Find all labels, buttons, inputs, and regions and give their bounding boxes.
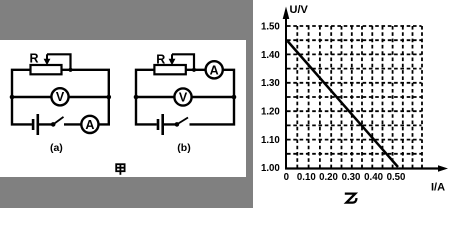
battery gap mask circuit a (32, 123, 38, 127)
svg-text:0.30: 0.30 (342, 172, 361, 183)
U-I line (288, 41, 399, 167)
svg-text:V: V (56, 90, 65, 104)
grid horizontal dashed lines (287, 26, 422, 154)
label 甲 (figure 1 caption), drawn as strokes (116, 164, 124, 175)
switch gap mask circuit b (179, 123, 190, 127)
svg-text:1.50: 1.50 (261, 21, 280, 32)
svg-text:(a): (a) (50, 142, 63, 154)
svg-text:A: A (85, 118, 94, 132)
switch pivot dot circuit a (51, 122, 56, 127)
battery gap mask circuit b (157, 123, 163, 127)
y tick labels (261, 21, 280, 174)
battery cell circuit b: short plate (157, 119, 160, 130)
svg-text:(b): (b) (177, 142, 190, 154)
svg-text:1.10: 1.10 (261, 135, 280, 146)
gray background block (0, 0, 253, 208)
svg-text:1.40: 1.40 (261, 50, 280, 61)
white graph area (253, 0, 452, 208)
voltmeter V1 circuit a (51, 88, 68, 105)
battery cell circuit b: long plate (161, 114, 164, 135)
svg-text:0.10: 0.10 (297, 172, 316, 183)
wire: middle branch circuit b (136, 96, 234, 98)
svg-text:0.20: 0.20 (319, 172, 338, 183)
svg-text:0: 0 (284, 172, 289, 183)
wire: outer loop circuit b (136, 70, 234, 125)
wire: outer loop circuit a (12, 70, 109, 125)
node: left junction circuit a (10, 95, 15, 100)
wire: slider tap circuit b (172, 53, 194, 70)
node: slider tap junction circuit b (192, 68, 196, 72)
resistor R (rheostat box) circuit a (31, 65, 62, 74)
ammeter A1 circuit a (81, 116, 98, 133)
wire: middle branch circuit a (12, 96, 109, 98)
U axis (y) (285, 10, 287, 169)
switch gap mask circuit a (55, 123, 64, 127)
svg-text:0.40: 0.40 (364, 172, 383, 183)
svg-text:1.30: 1.30 (261, 78, 280, 89)
svg-text:R: R (30, 51, 39, 65)
switch lever circuit b (177, 118, 188, 125)
slider arrow circuit b (171, 54, 173, 59)
resistor R (rheostat box) circuit b (154, 65, 185, 74)
node: right junction circuit a (107, 95, 112, 100)
voltmeter V2 circuit b (174, 88, 191, 105)
svg-text:1.20: 1.20 (261, 107, 280, 118)
I axis (x) (285, 167, 440, 169)
svg-text:A: A (210, 64, 219, 78)
node: slider tap junction circuit a (68, 68, 72, 72)
x tick labels (284, 172, 406, 183)
slider arrow circuit a (46, 54, 48, 59)
svg-text:I/A: I/A (431, 182, 445, 194)
node: right junction circuit b (232, 95, 237, 100)
white circuit panel (0, 40, 246, 177)
node: left junction circuit b (134, 95, 139, 100)
switch pivot dot circuit b (175, 122, 180, 127)
wire: slider tap circuit a (47, 53, 71, 70)
svg-text:R: R (156, 52, 165, 66)
battery cell circuit a: long plate (36, 114, 39, 135)
switch lever circuit a (53, 117, 63, 125)
grid vertical dashed lines (297, 26, 422, 169)
battery cell circuit a: short plate (32, 119, 35, 130)
svg-text:U/V: U/V (290, 4, 309, 16)
svg-text:V: V (179, 91, 188, 105)
svg-text:0.50: 0.50 (387, 172, 406, 183)
svg-text:1.00: 1.00 (261, 163, 280, 174)
label 乙 (figure 2 caption), drawn as strokes (345, 194, 357, 203)
ammeter A2 circuit b (206, 61, 223, 78)
